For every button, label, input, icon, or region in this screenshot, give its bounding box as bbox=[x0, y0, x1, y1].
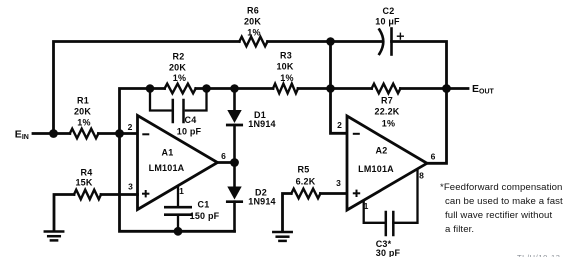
svg-text:6.2K: 6.2K bbox=[296, 176, 316, 186]
diode D2 bbox=[227, 163, 241, 232]
node D1 anode bbox=[230, 84, 239, 93]
svg-text:R7: R7 bbox=[381, 95, 393, 105]
capacitor C2 bbox=[379, 29, 403, 55]
resistor R4 bbox=[74, 190, 101, 200]
svg-text:3: 3 bbox=[128, 182, 133, 192]
svg-text:10K: 10K bbox=[276, 61, 293, 71]
wire D1 node to R3 bbox=[235, 87, 274, 90]
wire E_IN node to R1 bbox=[54, 132, 70, 135]
svg-text:A1: A1 bbox=[162, 147, 174, 157]
svg-text:LM101A: LM101A bbox=[149, 163, 185, 173]
svg-text:1: 1 bbox=[179, 186, 184, 196]
svg-text:R1: R1 bbox=[77, 95, 89, 105]
capacitor C1 bbox=[165, 188, 190, 232]
resistor R6 bbox=[239, 37, 267, 47]
capacitor C3 bbox=[386, 212, 394, 235]
label R2 value bbox=[169, 51, 186, 83]
wire A2 pin 1 to C3 bbox=[364, 202, 384, 223]
wire summing node to R7 bbox=[331, 87, 372, 90]
svg-text:22.2K: 22.2K bbox=[374, 107, 399, 117]
svg-text:A2: A2 bbox=[376, 145, 388, 155]
svg-text:1%: 1% bbox=[280, 73, 293, 83]
wire R6 to top junction bbox=[268, 40, 331, 43]
wire R5 to A2 pin 3 bbox=[320, 192, 347, 195]
svg-text:C1: C1 bbox=[198, 200, 210, 210]
svg-text:R3: R3 bbox=[280, 50, 292, 60]
wire bottom feedback rail bbox=[120, 134, 235, 232]
label C3 value bbox=[376, 239, 401, 257]
node C1 bottom bbox=[174, 227, 183, 236]
node A1 output bbox=[230, 158, 239, 167]
wire R3 to A2 input node bbox=[298, 87, 331, 90]
label R5 value bbox=[296, 164, 316, 186]
wire R7 to E_OUT node bbox=[400, 87, 446, 90]
wire C3 to A2 pin 8 bbox=[393, 170, 417, 223]
label R6 value bbox=[244, 5, 261, 37]
wire top rail from E_IN riser to C2 bbox=[54, 42, 240, 134]
wire R5 ground corner bbox=[283, 194, 292, 232]
svg-text:1%: 1% bbox=[382, 118, 395, 128]
resistor R2 bbox=[165, 84, 196, 94]
wire E_IN stub bbox=[33, 132, 54, 135]
svg-text:1N914: 1N914 bbox=[248, 119, 276, 129]
wire pin2 stub into A1 bbox=[120, 132, 138, 135]
svg-text:R5: R5 bbox=[298, 164, 310, 174]
svg-text:20K: 20K bbox=[74, 106, 91, 116]
wire summing node down to A2 pin 2 bbox=[331, 89, 348, 134]
wire R1 to pin2 node bbox=[98, 132, 119, 135]
svg-text:full wave rectifier without: full wave rectifier without bbox=[445, 210, 552, 221]
wire riser top junction down to summing node bbox=[329, 42, 332, 89]
op-amp A1 designator bbox=[149, 147, 185, 173]
ground (R4) bbox=[45, 232, 63, 241]
svg-text:1%: 1% bbox=[247, 27, 260, 37]
svg-text:20K: 20K bbox=[244, 16, 261, 26]
svg-text:1%: 1% bbox=[77, 117, 90, 127]
resistor R3 bbox=[273, 84, 298, 94]
svg-text:R4: R4 bbox=[81, 167, 93, 177]
label C2 value bbox=[375, 6, 400, 27]
node top junction bbox=[326, 37, 335, 46]
label R3 value bbox=[276, 50, 293, 83]
wire C2 to right riser, down to E_OUT node bbox=[392, 42, 447, 89]
wire R4 to A1 pin 3 bbox=[101, 193, 138, 196]
svg-text:1%: 1% bbox=[173, 73, 186, 83]
wire feedback riser pin2 node up to R2 line bbox=[120, 89, 151, 134]
svg-text:20K: 20K bbox=[169, 62, 186, 72]
svg-text:6: 6 bbox=[431, 152, 436, 162]
label R1 value bbox=[74, 95, 91, 127]
svg-text:a filter.: a filter. bbox=[445, 224, 474, 235]
wire R2 to D1 node bbox=[196, 87, 235, 90]
svg-text:2: 2 bbox=[337, 120, 342, 130]
ground (R5) bbox=[273, 232, 291, 241]
resistor R5 bbox=[291, 189, 320, 199]
svg-text:10 μF: 10 μF bbox=[375, 17, 400, 27]
svg-text:LM101A: LM101A bbox=[358, 164, 394, 174]
label C4 value bbox=[177, 115, 202, 137]
label C1 value bbox=[190, 200, 220, 221]
node E_IN junction bbox=[49, 129, 58, 138]
node R2 right / C4 tap bbox=[202, 84, 211, 93]
svg-text:can be used to make a fast: can be used to make a fast bbox=[445, 196, 563, 207]
node A2 summing junction bbox=[326, 84, 335, 93]
note footnote text bbox=[440, 182, 563, 235]
A2 minus input sign bbox=[353, 133, 360, 135]
svg-text:C2: C2 bbox=[383, 6, 395, 16]
svg-text:3: 3 bbox=[336, 178, 341, 188]
diode D1 bbox=[227, 89, 241, 163]
wire E_OUT node down to A2 output bbox=[427, 89, 447, 164]
svg-text:30 pF: 30 pF bbox=[376, 248, 401, 257]
svg-text:TL/H/10-13: TL/H/10-13 bbox=[517, 253, 561, 257]
svg-text:1: 1 bbox=[364, 201, 369, 211]
label R7 value bbox=[374, 95, 399, 128]
label R4 value bbox=[75, 167, 92, 187]
svg-text:C4: C4 bbox=[185, 115, 197, 125]
op-amp A2 designator bbox=[358, 145, 394, 174]
svg-text:2: 2 bbox=[128, 122, 133, 132]
capacitor C4 bbox=[150, 89, 207, 123]
wire R4 ground corner bbox=[54, 195, 74, 232]
svg-text:1N914: 1N914 bbox=[248, 196, 276, 206]
label D2 value bbox=[248, 187, 276, 206]
node R2 left / C4 tap bbox=[146, 84, 155, 93]
A2 plus input sign bbox=[353, 190, 360, 197]
resistor R1 bbox=[70, 129, 99, 139]
wire node to R2 bbox=[150, 87, 165, 90]
wire E_OUT stub bbox=[447, 87, 469, 90]
svg-text:8: 8 bbox=[419, 170, 424, 180]
svg-text:R6: R6 bbox=[247, 5, 259, 15]
node E_OUT junction bbox=[442, 84, 451, 93]
svg-text:*Feedforward compensation: *Feedforward compensation bbox=[440, 182, 563, 193]
wire A1 output to node bbox=[218, 161, 235, 164]
svg-text:15K: 15K bbox=[75, 177, 92, 187]
svg-text:150 pF: 150 pF bbox=[190, 211, 220, 221]
svg-text:6: 6 bbox=[221, 151, 226, 161]
op-amp A1 bbox=[138, 116, 218, 210]
svg-text:10 pF: 10 pF bbox=[177, 127, 202, 137]
node A1 inverting input bbox=[115, 129, 124, 138]
resistor R7 bbox=[372, 84, 401, 94]
wire top junction to C2 bbox=[331, 40, 382, 43]
A1 minus input sign bbox=[142, 133, 149, 135]
label D1 value bbox=[248, 110, 276, 129]
A1 plus input sign bbox=[142, 190, 149, 197]
svg-text:R2: R2 bbox=[173, 51, 185, 61]
op-amp A2 bbox=[347, 116, 427, 210]
